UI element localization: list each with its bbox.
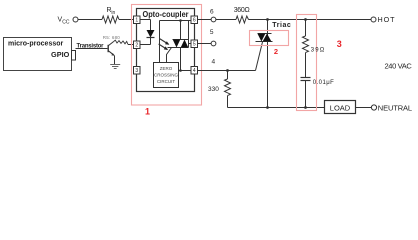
svg-text:micro-processor: micro-processor	[8, 40, 64, 47]
svg-text:240 VAC: 240 VAC	[385, 61, 413, 70]
svg-text:0.01μF: 0.01μF	[313, 80, 334, 86]
svg-text:2: 2	[274, 47, 278, 56]
svg-text:2: 2	[135, 43, 138, 49]
svg-text:Triac: Triac	[272, 22, 291, 29]
svg-text:6: 6	[193, 18, 196, 24]
svg-text:GPIO: GPIO	[51, 50, 70, 59]
svg-text:NEUTRAL: NEUTRAL	[378, 104, 412, 113]
svg-text:1: 1	[135, 18, 138, 24]
svg-text:4: 4	[211, 59, 215, 66]
svg-text:6: 6	[210, 9, 214, 16]
svg-text:5: 5	[210, 29, 214, 36]
svg-text:CIRCUIT: CIRCUIT	[157, 79, 175, 84]
svg-text:in: in	[111, 10, 115, 16]
svg-text:5: 5	[193, 42, 196, 48]
svg-text:4: 4	[193, 68, 196, 74]
svg-text:Transistor: Transistor	[77, 43, 105, 49]
svg-text:330: 330	[208, 86, 219, 93]
svg-text:CROSSING: CROSSING	[154, 73, 179, 78]
svg-text:39Ω: 39Ω	[311, 47, 325, 53]
svg-text:3: 3	[135, 68, 138, 74]
svg-text:HOT: HOT	[378, 15, 396, 24]
svg-text:ZERO: ZERO	[160, 66, 173, 71]
svg-text:3: 3	[337, 39, 342, 49]
svg-text:CC: CC	[62, 19, 70, 25]
svg-text:360Ω: 360Ω	[234, 7, 250, 14]
svg-text:LOAD: LOAD	[330, 103, 351, 112]
svg-text:1: 1	[145, 106, 150, 116]
svg-text:Opto-coupler: Opto-coupler	[143, 9, 190, 19]
svg-text:R5: 680: R5: 680	[103, 35, 120, 40]
